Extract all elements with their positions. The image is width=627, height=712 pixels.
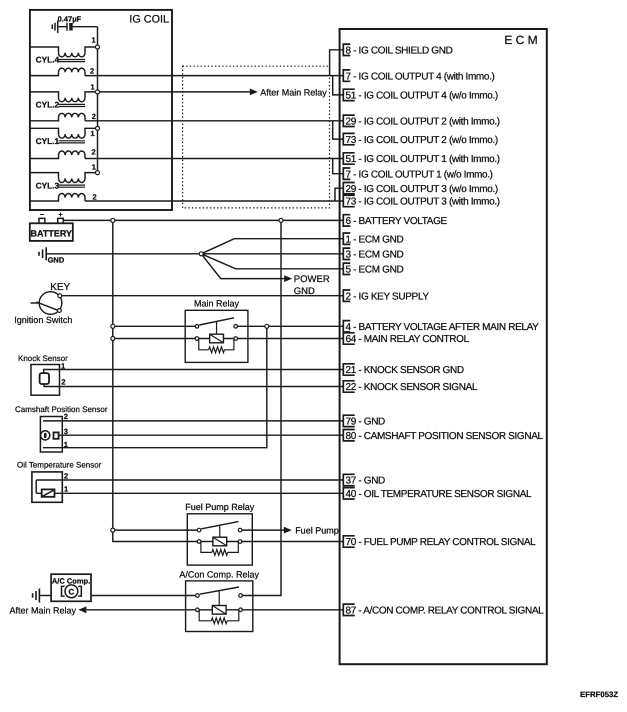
svg-text:EFRF053Z: EFRF053Z [580, 690, 618, 699]
svg-text:1: 1 [64, 485, 68, 494]
svg-text:+: + [58, 210, 63, 219]
svg-text:8 - IG COIL SHIELD GND: 8 - IG COIL SHIELD GND [346, 46, 453, 57]
svg-text:29 - IG COIL OUTPUT 3 (w/o Imm: 29 - IG COIL OUTPUT 3 (w/o Immo.) [346, 184, 498, 195]
svg-text:Main Relay: Main Relay [194, 299, 240, 309]
svg-text:1: 1 [91, 129, 95, 138]
svg-text:37 - GND: 37 - GND [346, 476, 386, 487]
svg-text:7 - IG COIL OUTPUT 4 (with Imm: 7 - IG COIL OUTPUT 4 (with Immo.) [346, 71, 495, 82]
svg-text:3 - ECM GND: 3 - ECM GND [346, 250, 404, 261]
svg-text:73 - IG COIL OUTPUT 3 (with Im: 73 - IG COIL OUTPUT 3 (with Immo.) [346, 197, 500, 208]
svg-text:1: 1 [92, 35, 96, 44]
svg-text:BATTERY: BATTERY [31, 228, 73, 238]
svg-text:1: 1 [61, 361, 65, 370]
svg-text:GND: GND [48, 256, 65, 265]
svg-text:40 - OIL TEMPERATURE SENSOR SI: 40 - OIL TEMPERATURE SENSOR SIGNAL [346, 489, 533, 500]
svg-text:E C M: E C M [504, 33, 537, 47]
svg-text:Camshaft Position Sensor: Camshaft Position Sensor [15, 405, 108, 414]
svg-text:KEY: KEY [50, 282, 70, 293]
svg-text:2 - IG KEY SUPPLY: 2 - IG KEY SUPPLY [346, 291, 430, 302]
svg-text:29 - IG COIL OUTPUT 2 (with Im: 29 - IG COIL OUTPUT 2 (with Immo.) [346, 117, 500, 128]
svg-text:CYL.1: CYL.1 [36, 136, 60, 146]
svg-text:A/Con Comp. Relay: A/Con Comp. Relay [179, 569, 259, 579]
svg-text:22 - KNOCK SENSOR SIGNAL: 22 - KNOCK SENSOR SIGNAL [346, 382, 478, 393]
svg-text:Ignition Switch: Ignition Switch [14, 315, 72, 325]
svg-text:2: 2 [92, 148, 96, 157]
svg-text:5 - ECM GND: 5 - ECM GND [346, 265, 404, 276]
svg-text:4 - BATTERY VOLTAGE AFTER MAIN: 4 - BATTERY VOLTAGE AFTER MAIN RELAY [346, 322, 540, 333]
svg-text:POWER: POWER [294, 274, 330, 285]
svg-text:Fuel Pump Relay: Fuel Pump Relay [185, 502, 255, 512]
svg-text:CYL.3: CYL.3 [36, 181, 60, 191]
svg-text:2: 2 [61, 377, 65, 386]
svg-text:80 - CAMSHAFT POSITION SENSOR: 80 - CAMSHAFT POSITION SENSOR SIGNAL [346, 431, 544, 442]
svg-text:2: 2 [92, 112, 96, 121]
svg-text:6 - BATTERY VOLTAGE: 6 - BATTERY VOLTAGE [346, 216, 448, 227]
svg-text:7 - IG COIL OUTPUT 1 (w/o Immo: 7 - IG COIL OUTPUT 1 (w/o Immo.) [346, 169, 493, 180]
svg-text:2: 2 [64, 472, 68, 481]
svg-text:2: 2 [93, 193, 97, 202]
svg-text:2: 2 [90, 66, 94, 75]
svg-text:3: 3 [64, 427, 68, 436]
svg-text:2: 2 [64, 412, 68, 421]
svg-text:Fuel Pump: Fuel Pump [295, 526, 339, 536]
svg-text:C: C [69, 588, 75, 597]
svg-text:51 - IG COIL OUTPUT 1 (with Im: 51 - IG COIL OUTPUT 1 (with Immo.) [346, 154, 500, 165]
svg-text:CYL.4: CYL.4 [36, 55, 60, 65]
svg-text:70 - FUEL PUMP RELAY CONTROL S: 70 - FUEL PUMP RELAY CONTROL SIGNAL [346, 537, 537, 548]
svg-text:IG COIL: IG COIL [129, 14, 169, 26]
svg-text:64 - MAIN RELAY CONTROL: 64 - MAIN RELAY CONTROL [346, 334, 470, 345]
svg-text:After Main Relay: After Main Relay [260, 87, 327, 97]
svg-text:1: 1 [91, 82, 95, 91]
svg-text:A/C Comp.: A/C Comp. [52, 576, 90, 585]
svg-text:1: 1 [64, 440, 68, 449]
svg-text:Oil Temperature Sensor: Oil Temperature Sensor [17, 460, 102, 469]
svg-text:73 - IG COIL OUTPUT 2 (w/o Imm: 73 - IG COIL OUTPUT 2 (w/o Immo.) [346, 135, 498, 146]
svg-text:79 - GND: 79 - GND [346, 417, 386, 428]
svg-text:0.47µF: 0.47µF [58, 15, 82, 24]
svg-text:−: − [40, 210, 45, 219]
svg-text:After Main Relay: After Main Relay [9, 605, 76, 615]
svg-text:CYL.2: CYL.2 [36, 100, 60, 110]
svg-text:87 - A/CON COMP. RELAY CONTROL: 87 - A/CON COMP. RELAY CONTROL SIGNAL [346, 606, 545, 617]
svg-text:21 - KNOCK SENSOR GND: 21 - KNOCK SENSOR GND [346, 365, 464, 376]
svg-text:1 - ECM GND: 1 - ECM GND [346, 234, 404, 245]
svg-text:1: 1 [92, 162, 96, 171]
svg-text:51 - IG COIL OUTPUT 4 (w/o Imm: 51 - IG COIL OUTPUT 4 (w/o Immo.) [346, 91, 498, 102]
